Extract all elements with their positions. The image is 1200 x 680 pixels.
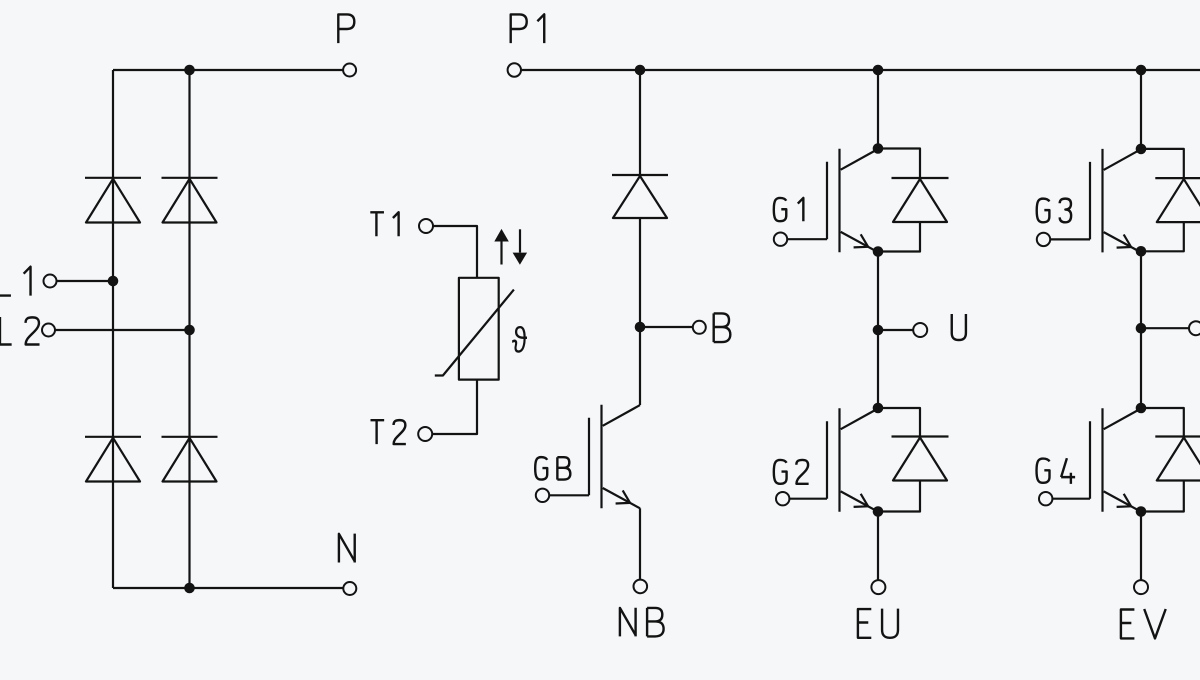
diode D7 branch wires (878, 408, 920, 437)
node junction bottom rail / right column (184, 583, 195, 594)
wire left bridge column (112, 70, 114, 588)
label T1 (370, 212, 398, 236)
wire V-leg top (1140, 70, 1142, 149)
node V junction (1136, 323, 1147, 334)
wire EU (877, 512, 879, 581)
diode D2 upper-right (162, 178, 218, 223)
thermistor R1 body (459, 278, 499, 380)
diode D5 chopper (612, 175, 668, 218)
diode D6 antiparallel G1 (892, 178, 949, 222)
terminal P1 (508, 63, 521, 76)
wire to B terminal (640, 326, 693, 328)
diode D9 branch wires (1141, 408, 1184, 437)
thermistor diagonal stroke (435, 290, 514, 376)
wire P1 rail (521, 69, 1200, 71)
terminal L2 (42, 324, 55, 337)
wire EV (1140, 512, 1142, 581)
diode D3 lower-left (85, 437, 141, 482)
node G2 emitter (873, 506, 884, 517)
terminal B (693, 321, 706, 334)
label P1 (511, 14, 545, 43)
label P (338, 14, 354, 43)
terminal T2 (418, 427, 432, 441)
label L1 (0, 266, 31, 295)
label L2 (0, 317, 40, 345)
node P1/chopper junction (635, 65, 646, 76)
label G2 (774, 460, 809, 484)
wire N rail bottom-left (113, 587, 343, 589)
node G4 emitter (1136, 506, 1147, 517)
wire chopper mid (639, 218, 641, 405)
arrow up (500, 240, 502, 265)
wire L1 (57, 280, 114, 282)
diode D8 antiparallel G3 (1155, 178, 1200, 222)
diode D1 upper-left (85, 178, 141, 223)
node U junction (873, 325, 884, 336)
node junction top rail / right column (184, 65, 195, 76)
wire to U terminal (878, 329, 913, 331)
wire mid V-leg (1140, 251, 1142, 408)
transistor G2 (IGBT) (776, 408, 878, 512)
wire mid U-leg (877, 252, 879, 409)
label B (714, 313, 731, 342)
transistor G4 (IGBT) (1039, 408, 1141, 512)
transistor G3 (IGBT) (1037, 149, 1141, 253)
terminal U (913, 323, 927, 337)
label G3 (1037, 199, 1071, 223)
diode D4 lower-right (162, 437, 218, 482)
wire D6 anode to emitter (878, 222, 920, 252)
wire D9 anode to emitter (1141, 481, 1184, 512)
wire right bridge column (188, 70, 190, 588)
diode D9 antiparallel G4 (1155, 437, 1200, 481)
wire chopper top (639, 70, 641, 176)
node G1 emitter (873, 246, 884, 257)
wire thermistor to T2 (432, 380, 477, 434)
wire GB emitter to NB (639, 508, 641, 579)
terminal V (1189, 321, 1200, 335)
wire T1 to thermistor (433, 226, 477, 278)
svg-text:ϑ: ϑ (512, 320, 528, 360)
arrow down (519, 229, 521, 252)
diode D6 branch wires (878, 149, 920, 179)
node G3 emitter (1136, 246, 1147, 257)
terminal L1 (44, 275, 57, 288)
diode D7 antiparallel G2 (892, 437, 949, 481)
label G4 (1037, 458, 1076, 484)
terminal EU (871, 580, 885, 594)
label GB (535, 457, 570, 479)
wire U-leg top (877, 70, 879, 149)
transistor GB (IGBT) (536, 405, 640, 509)
terminal EV (1134, 580, 1148, 594)
label T2 (371, 420, 406, 444)
label NB (620, 608, 664, 637)
node G1 collector (873, 143, 884, 154)
label G1 (774, 198, 804, 221)
node G2 collector (873, 403, 884, 414)
node L2 junction (184, 325, 195, 336)
label EU (858, 609, 898, 638)
node G4 collector (1136, 403, 1147, 414)
terminal NB (634, 580, 648, 594)
terminal N (343, 582, 356, 595)
terminal T1 (419, 219, 433, 233)
wire to V terminal (1141, 327, 1189, 329)
diode D8 branch wires (1141, 149, 1184, 179)
label U (952, 314, 966, 340)
wire D8 anode to emitter (1141, 222, 1184, 251)
wire P rail top-left (113, 69, 343, 71)
node P1/V-leg junction (1136, 65, 1147, 76)
node P1/U-leg junction (873, 65, 884, 76)
wire L2 (55, 329, 190, 331)
wire D7 anode to emitter (878, 481, 920, 512)
node L1 junction (108, 276, 119, 287)
node G3 collector (1136, 144, 1147, 155)
node B junction (635, 322, 646, 333)
label N (339, 534, 355, 563)
transistor G1 (IGBT) (774, 149, 878, 253)
terminal P (343, 64, 356, 77)
label EV (1121, 609, 1166, 638)
